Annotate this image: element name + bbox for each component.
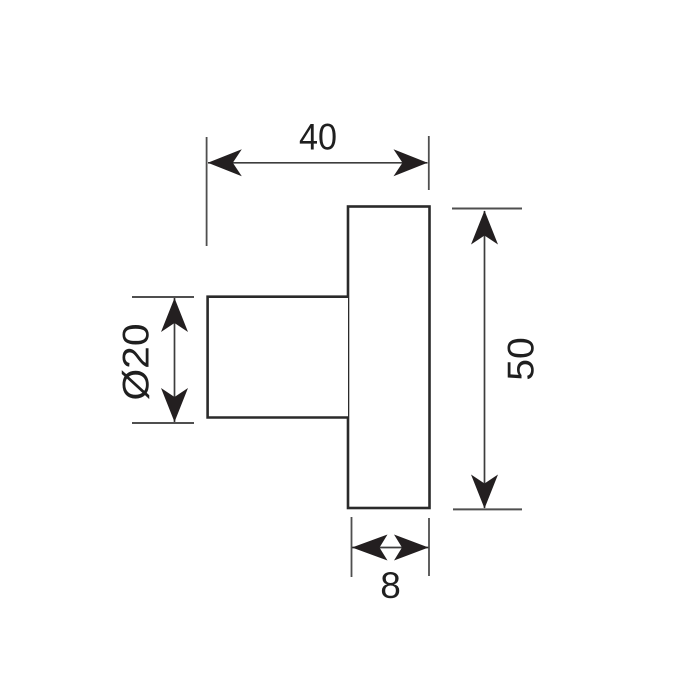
dim O20: bottom arrowhead <box>161 388 188 422</box>
dim 40: right extension line <box>428 136 430 190</box>
dim 50: dimension line <box>484 211 486 508</box>
dim 40: right arrowhead <box>394 149 428 176</box>
dim 50: top extension tick <box>452 208 522 210</box>
dim 50: bottom arrowhead <box>471 475 498 509</box>
dim 8: left extension line <box>351 517 353 577</box>
dim 8: dimension line <box>352 547 429 549</box>
knob stem rectangle <box>208 297 348 418</box>
svg-text:40: 40 <box>299 117 337 158</box>
dim 40: dimension line <box>208 162 428 164</box>
dim O20: bottom extension tick <box>132 422 194 424</box>
dim 8: right extension line <box>428 518 430 576</box>
svg-text:Ø20: Ø20 <box>116 324 157 401</box>
dim O20: dimension line <box>174 298 176 422</box>
dim 40: left arrowhead <box>208 149 242 176</box>
svg-text:8: 8 <box>380 565 401 606</box>
dim O20: top arrowhead <box>161 298 188 332</box>
dim 8: right arrowhead <box>394 535 429 561</box>
svg-text:50: 50 <box>501 337 542 381</box>
knob plate rectangle (side view) <box>348 207 430 509</box>
dim 50: top arrowhead <box>471 211 498 245</box>
dim 50: bottom extension tick <box>453 508 522 510</box>
dim O20: top extension tick <box>132 296 194 298</box>
dim 40: left extension line <box>206 137 208 246</box>
dim 8: left arrowhead <box>352 535 388 561</box>
